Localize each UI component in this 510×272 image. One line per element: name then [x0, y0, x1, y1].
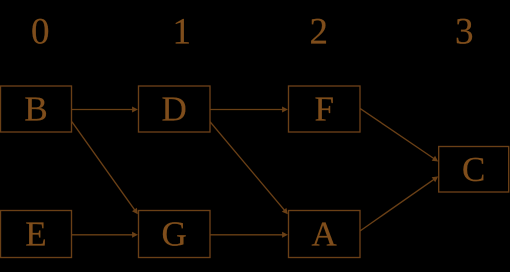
svg-text:0: 0: [31, 12, 50, 53]
svg-text:A: A: [312, 215, 338, 254]
edge F to C: [360, 108, 438, 161]
node D: [139, 86, 211, 132]
edge D to A: [210, 122, 288, 215]
svg-text:F: F: [314, 90, 333, 129]
column label 1: [172, 12, 191, 53]
svg-text:1: 1: [172, 12, 191, 53]
node G: [139, 211, 211, 258]
node A: [289, 211, 361, 258]
svg-text:B: B: [24, 90, 47, 129]
svg-text:2: 2: [310, 12, 329, 53]
svg-text:E: E: [25, 215, 46, 254]
svg-text:3: 3: [455, 12, 474, 53]
edge B to D: [72, 107, 138, 113]
node F: [289, 86, 361, 132]
node C: [439, 147, 509, 193]
svg-text:D: D: [162, 90, 187, 129]
svg-text:G: G: [162, 215, 187, 254]
svg-text:C: C: [462, 150, 485, 189]
edge B to G: [72, 122, 138, 215]
edge A to C: [360, 176, 438, 231]
node E: [1, 211, 72, 258]
column label 3: [455, 12, 474, 53]
edge G to A: [210, 232, 288, 238]
edge D to F: [210, 107, 288, 113]
column label 2: [310, 12, 329, 53]
edge E to G: [72, 232, 138, 238]
column label 0: [31, 12, 50, 53]
node B: [1, 86, 72, 132]
